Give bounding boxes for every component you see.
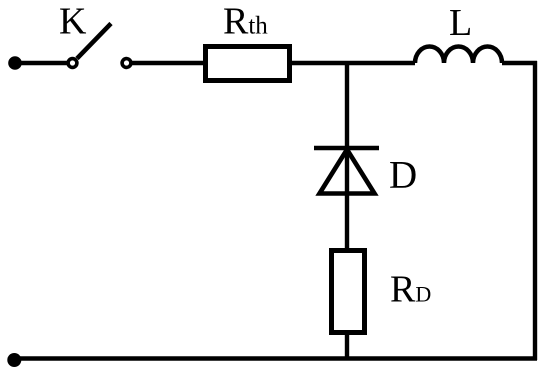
switch K pole contact (open circle) <box>68 59 77 68</box>
right vertical wire <box>533 61 537 360</box>
wire from top-left terminal to switch pole <box>15 61 67 65</box>
svg-text:D: D <box>389 153 417 196</box>
terminal dot (bottom-left input) <box>7 353 21 367</box>
node A junction vertical wire down through diode to resistor RD <box>345 63 349 252</box>
wire from inductor to top-right corner <box>502 61 537 65</box>
svg-text:K: K <box>59 1 87 43</box>
svg-text:L: L <box>449 2 472 44</box>
switch K throw contact (open circle) <box>122 59 131 68</box>
wire from Rth to inductor, with junction at node A <box>290 61 415 65</box>
wire from RD to bottom rail <box>345 333 349 360</box>
resistor RD body <box>332 251 365 333</box>
inductor L coil <box>415 47 502 63</box>
bottom rail wire <box>15 356 537 360</box>
diode D cathode bar <box>314 146 379 150</box>
switch K lever arm <box>77 24 111 59</box>
terminal dot (top-left input) <box>8 56 22 70</box>
resistor Rth body <box>206 47 290 81</box>
wire from switch to resistor Rth <box>132 61 203 65</box>
svg-text:RD: RD <box>390 268 431 310</box>
diode D triangle (anode pointing up) <box>320 150 375 194</box>
svg-text:Rth: Rth <box>223 1 268 43</box>
